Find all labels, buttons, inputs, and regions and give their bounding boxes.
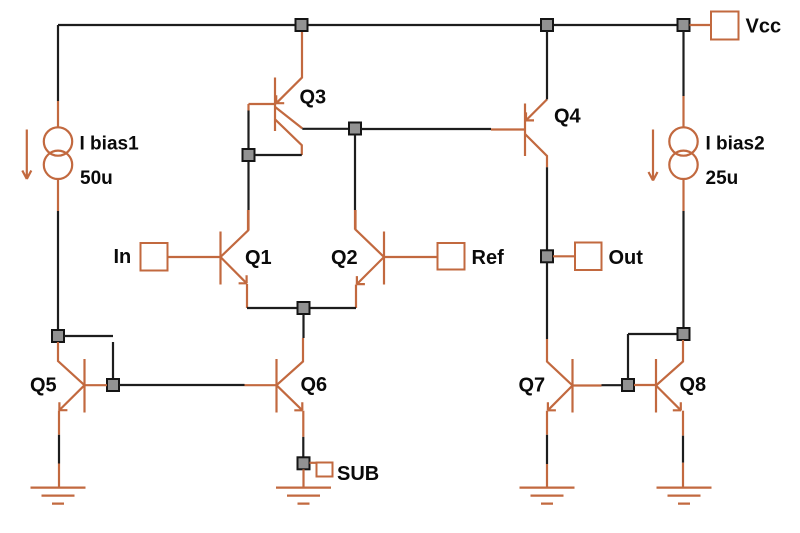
svg-text:50u: 50u [80,168,113,189]
svg-text:In: In [114,246,132,268]
node junction on rail above Q3 [296,19,308,31]
wire Q3 collector2 to junction [255,154,302,156]
node junction Q7/Q8 bases [622,379,634,391]
node junction left (Ibias1/Q5) [52,330,64,342]
port SUB [317,463,333,477]
svg-text:Vcc: Vcc [746,16,782,38]
wire Q2 emitter to node [310,307,357,309]
wire Q3 collector1 to Q4 base node [302,128,349,130]
wire Q2 collector orange upper [354,210,356,230]
wire Q5 base node to Q6 base [119,384,245,386]
svg-text:I bias2: I bias2 [706,134,765,155]
svg-text:Ref: Ref [472,247,505,269]
ground Q5 [31,488,86,504]
wire top rail Vcc [58,24,684,26]
node junction Out [541,250,553,262]
current source Ibias1 [22,101,72,211]
wire out node to port [553,255,575,257]
node junction Q5 base [107,379,119,391]
wire node down to Q6 collector [302,314,304,338]
wire junction below Q3 down to Q1 collector [247,161,249,210]
wire node down to Q2 collector [354,135,356,211]
transistor Q2 (mirrored) [356,210,438,308]
svg-text:I bias1: I bias1 [80,134,140,155]
node junction rail right (Vcc/Ibias2) [678,19,690,31]
wire node down to ground [302,469,304,487]
svg-text:Q1: Q1 [245,247,272,269]
svg-text:Q8: Q8 [680,374,707,396]
port Out [575,243,602,271]
wire left branch lower [57,211,59,330]
svg-text:Q7: Q7 [519,375,546,397]
wire Q1 emitter to node [247,307,298,309]
current source Ibias2 [649,31,698,211]
svg-text:Q2: Q2 [331,247,358,269]
svg-text:Q5: Q5 [30,375,57,397]
port In [141,243,168,271]
wire node to SUB port [310,462,317,464]
svg-text:Q6: Q6 [301,374,328,396]
node junction on rail above Q4 [541,19,553,31]
wire Q4 collector down [546,167,548,250]
svg-text:Q4: Q4 [554,106,582,128]
node junction right branch (Ibias2/Q8 collector) [678,328,690,340]
node junction Q1/Q2 emitters [298,302,310,314]
wire Q7 base black [602,384,623,386]
transistor Q5 [58,342,107,435]
wire out node down to Q7 [546,262,548,339]
wire Q7 emitter [546,435,548,464]
wire rail to Q4 emitter [546,31,548,99]
wire Q1 collector black [247,210,249,231]
port Ref [438,243,465,270]
wire Q3 base down [247,111,249,150]
ground Q8 [657,488,712,504]
transistor Q7 (mirrored) [547,339,602,435]
ground Q6 [276,488,331,504]
wire Q8 emitter black [682,436,684,463]
node junction Q3 collector1 / Q4 base / Q2 collector [349,123,361,135]
svg-text:Q3: Q3 [300,87,327,109]
wire Q6 emitter black [302,437,304,457]
transistor Q4 (PNP) [491,99,547,167]
wire junction to Vcc port [690,24,712,26]
wire Q5 emitter [58,435,60,464]
wire right node to base node [628,334,678,379]
wire node to Q4 base [361,128,491,130]
svg-text:Out: Out [609,247,644,269]
transistor Q8 [634,340,683,436]
ground Q7 [520,488,575,504]
node junction Q3 base/collector2 [243,149,255,161]
svg-text:SUB: SUB [337,463,379,485]
wire junction to Q5 base node [64,336,113,379]
transistor Q6 [245,338,304,437]
wire right branch lower [682,211,684,328]
node junction Q6 emitter / SUB [298,457,310,469]
port Vcc [711,12,739,40]
wire left branch upper [57,25,59,101]
transistor Q3 (dual collector PNP) [249,31,303,155]
svg-text:25u: 25u [706,168,739,189]
transistor Q1 [168,210,249,308]
